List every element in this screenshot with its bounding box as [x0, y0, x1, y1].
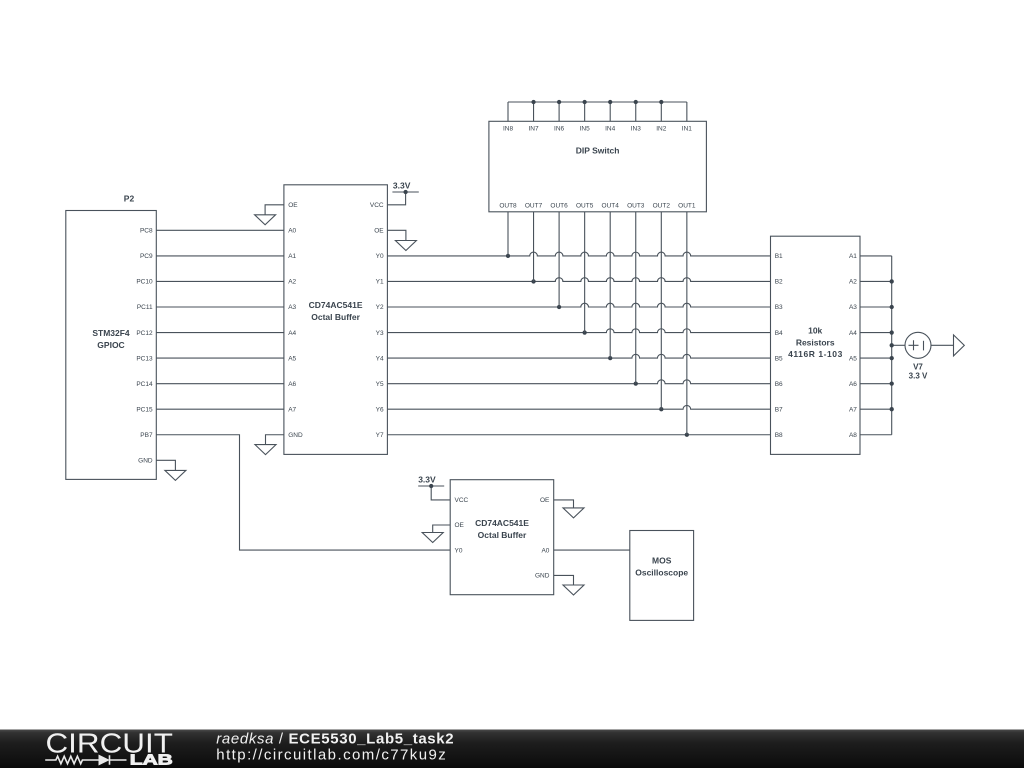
svg-text:Y0: Y0 — [376, 253, 384, 260]
junction dot OUT3 on Y5 — [634, 382, 638, 386]
junction dot at U2 VCC supply — [429, 484, 433, 488]
wire PC8 to A0 — [156, 229, 284, 231]
wire Y3 to B4 — [387, 329, 770, 333]
wire U2 VCC stub — [431, 486, 450, 500]
svg-text:Y3: Y3 — [376, 330, 384, 337]
voltage source V7 circle — [905, 332, 931, 358]
wire A8 stub — [860, 434, 892, 436]
svg-text:PC12: PC12 — [136, 330, 153, 337]
ground at U2 GND — [563, 585, 584, 595]
wire IN3 stub — [635, 102, 637, 121]
svg-text:VCC: VCC — [455, 497, 469, 504]
svg-text:OUT5: OUT5 — [576, 203, 594, 210]
svg-text:B1: B1 — [775, 253, 783, 260]
svg-text:Octal Buffer: Octal Buffer — [478, 530, 527, 540]
wire OUT4 to Y4 — [609, 212, 611, 358]
wire P2 GND stub — [156, 460, 175, 470]
wire U1 GND stub — [266, 435, 284, 445]
svg-text:A4: A4 — [288, 330, 296, 337]
component P2 STM32F4 GPIOC box — [66, 211, 157, 480]
ground at U1 GND — [255, 445, 276, 455]
svg-text:A8: A8 — [849, 432, 857, 439]
svg-text:raedksa / ECE5530_Lab5_task2: raedksa / ECE5530_Lab5_task2 — [216, 731, 453, 748]
svg-text:http://circuitlab.com/c77ku9z: http://circuitlab.com/c77ku9z — [216, 747, 445, 764]
svg-text:CD74AC541E: CD74AC541E — [309, 300, 363, 310]
component U1 CD74AC541E octal buffer box — [284, 185, 388, 455]
wire A4 stub — [860, 332, 892, 334]
component U2 CD74AC541E octal buffer box — [450, 480, 554, 595]
wire OUT7 to Y1 — [533, 212, 535, 282]
logo resistor zigzag — [45, 756, 99, 764]
svg-text:IN6: IN6 — [554, 126, 565, 133]
svg-text:A5: A5 — [288, 355, 296, 362]
wire U1 right OE stub — [387, 230, 406, 240]
V7 plus sign — [909, 340, 919, 350]
svg-text:STM32F4: STM32F4 — [92, 328, 130, 338]
svg-text:Y6: Y6 — [376, 406, 384, 413]
svg-text:Resistors: Resistors — [796, 337, 835, 347]
svg-text:CD74AC541E: CD74AC541E — [475, 518, 529, 528]
wire PC9 to A1 — [156, 255, 284, 257]
svg-text:A6: A6 — [288, 381, 296, 388]
junction dot IN6 — [557, 100, 561, 104]
svg-text:IN3: IN3 — [631, 126, 642, 133]
svg-text:OE: OE — [374, 228, 384, 235]
svg-text:MOS: MOS — [652, 555, 672, 565]
svg-text:A1: A1 — [288, 253, 296, 260]
junction dot OUT5 on Y3 — [583, 330, 587, 334]
wire U2 GND stub — [554, 575, 574, 585]
wire A2 stub — [860, 280, 892, 282]
wire U1 OE stub — [265, 205, 284, 215]
svg-text:GND: GND — [288, 432, 303, 439]
svg-text:OE: OE — [455, 522, 465, 529]
svg-text:V7: V7 — [913, 363, 923, 372]
svg-text:A2: A2 — [849, 279, 857, 286]
svg-text:OUT2: OUT2 — [653, 203, 671, 210]
junction dot V7 tap — [890, 343, 894, 347]
svg-text:3.3 V: 3.3 V — [909, 371, 928, 380]
wire OUT6 to Y2 — [558, 212, 560, 307]
svg-text:PC8: PC8 — [140, 228, 153, 235]
wire IN bus — [508, 101, 687, 103]
svg-text:B3: B3 — [775, 304, 783, 311]
ground at P2 GND — [165, 470, 186, 480]
footer black bar — [0, 730, 1024, 768]
svg-text:IN1: IN1 — [682, 126, 693, 133]
svg-text:A7: A7 — [849, 406, 857, 413]
junction dot A4 bus — [890, 330, 894, 334]
svg-text:PC15: PC15 — [136, 406, 153, 413]
wire A1 stub — [860, 255, 892, 257]
output flag — [954, 335, 965, 356]
wire Y0 to B1 — [387, 252, 770, 256]
wire PB7 to U2 Y0 — [156, 435, 450, 550]
wire IN4 stub — [609, 102, 611, 121]
junction dot OUT6 on Y2 — [557, 305, 561, 309]
svg-text:GPIOC: GPIOC — [97, 340, 124, 350]
wire IN5 stub — [584, 102, 586, 121]
svg-text:PC10: PC10 — [136, 279, 153, 286]
svg-text:GND: GND — [138, 458, 153, 465]
svg-text:A4: A4 — [849, 330, 857, 337]
wire Y1 to B2 — [387, 278, 770, 282]
svg-text:A3: A3 — [849, 304, 857, 311]
junction dot IN2 — [659, 100, 663, 104]
junction dot at U1 VCC supply — [403, 190, 407, 194]
V7 minus bar — [923, 341, 925, 351]
svg-text:3.3V: 3.3V — [393, 181, 411, 191]
junction dot OUT4 on Y4 — [608, 356, 612, 360]
component MOS oscilloscope box — [630, 531, 694, 621]
junction dot IN5 — [583, 100, 587, 104]
logo diode bar and wire — [109, 755, 127, 764]
supply 3.3V bar at U1 VCC — [392, 191, 418, 193]
svg-text:Y7: Y7 — [376, 432, 384, 439]
wire Y7 to B8 — [387, 434, 770, 436]
wire U2 A0 to oscilloscope — [554, 549, 630, 551]
component R1 10k resistor network box — [771, 236, 861, 454]
svg-text:B2: B2 — [775, 279, 783, 286]
svg-text:PB7: PB7 — [140, 432, 153, 439]
ground at U2 right OE — [563, 508, 584, 518]
junction dot A3 bus — [890, 305, 894, 309]
wire PC13 to A5 — [156, 357, 284, 359]
svg-text:B6: B6 — [775, 381, 783, 388]
ground at U2 OE — [422, 533, 443, 543]
svg-text:OUT8: OUT8 — [499, 203, 517, 210]
svg-text:A0: A0 — [541, 547, 549, 554]
wire IN8 stub — [507, 102, 509, 121]
svg-text:Y5: Y5 — [376, 381, 384, 388]
wire PC14 to A6 — [156, 383, 284, 385]
wire V7 to flag — [931, 344, 954, 346]
svg-text:P2: P2 — [124, 193, 135, 203]
svg-text:GND: GND — [535, 573, 550, 580]
svg-text:Octal Buffer: Octal Buffer — [311, 312, 360, 322]
wire A bus vertical — [891, 256, 893, 435]
wire OUT8 to Y0 — [507, 212, 509, 256]
svg-text:B8: B8 — [775, 432, 783, 439]
supply 3.3V bar at U2 VCC — [418, 485, 444, 487]
junction dot A6 bus — [890, 382, 894, 386]
junction dot A5 bus — [890, 356, 894, 360]
svg-text:OUT1: OUT1 — [678, 203, 696, 210]
svg-text:A0: A0 — [288, 228, 296, 235]
svg-text:PC9: PC9 — [140, 253, 153, 260]
wire A7 stub — [860, 408, 892, 410]
wire PC10 to A2 — [156, 280, 284, 282]
svg-text:IN7: IN7 — [528, 126, 539, 133]
junction dot IN7 — [531, 100, 535, 104]
svg-text:10k: 10k — [808, 326, 822, 336]
svg-text:OUT7: OUT7 — [525, 203, 543, 210]
wire U1 VCC stub — [387, 192, 405, 205]
svg-text:Y2: Y2 — [376, 304, 384, 311]
wire A3 stub — [860, 306, 892, 308]
wire OUT1 to Y7 — [686, 212, 688, 435]
wire PC15 to A7 — [156, 408, 284, 410]
svg-text:PC13: PC13 — [136, 355, 153, 362]
component SW1 DIP Switch box — [489, 121, 707, 212]
junction dot IN3 — [634, 100, 638, 104]
svg-text:OE: OE — [540, 497, 550, 504]
svg-text:3.3V: 3.3V — [418, 475, 436, 485]
svg-text:A1: A1 — [849, 253, 857, 260]
svg-text:PC14: PC14 — [136, 381, 153, 388]
svg-text:A7: A7 — [288, 406, 296, 413]
svg-text:IN5: IN5 — [580, 126, 591, 133]
svg-text:Y0: Y0 — [455, 547, 463, 554]
svg-text:B7: B7 — [775, 406, 783, 413]
svg-text:B4: B4 — [775, 330, 783, 337]
wire U2 right OE stub — [554, 500, 574, 508]
svg-text:IN2: IN2 — [656, 126, 667, 133]
svg-text:A2: A2 — [288, 279, 296, 286]
svg-text:LAB: LAB — [130, 752, 173, 768]
ground at U1 right OE — [395, 241, 416, 251]
svg-text:OUT3: OUT3 — [627, 203, 645, 210]
junction dot OUT7 on Y1 — [531, 279, 535, 283]
junction dot OUT1 on Y7 — [685, 433, 689, 437]
wire PC12 to A4 — [156, 332, 284, 334]
wire Y4 to B5 — [387, 354, 770, 358]
wire A6 stub — [860, 383, 892, 385]
wire Y5 to B6 — [387, 380, 770, 384]
svg-text:PC11: PC11 — [137, 304, 153, 311]
svg-text:A6: A6 — [849, 381, 857, 388]
svg-text:B5: B5 — [775, 355, 783, 362]
junction dot OUT2 on Y6 — [659, 407, 663, 411]
wire IN1 stub — [686, 102, 688, 121]
svg-text:OUT6: OUT6 — [550, 203, 568, 210]
svg-text:A3: A3 — [288, 304, 296, 311]
svg-text:DIP Switch: DIP Switch — [576, 146, 620, 156]
wire IN6 stub — [558, 102, 560, 121]
junction dot A2 bus — [890, 279, 894, 283]
wire U2 OE stub — [433, 525, 451, 533]
svg-text:IN4: IN4 — [605, 126, 616, 133]
ground at U1 OE — [255, 215, 276, 225]
junction dot OUT8 on Y0 — [506, 254, 510, 258]
wire Y6 to B7 — [387, 405, 770, 409]
junction dot IN4 — [608, 100, 612, 104]
svg-text:4116R 1-103: 4116R 1-103 — [788, 349, 842, 359]
wire bus to V7 — [892, 344, 905, 346]
svg-text:OE: OE — [288, 202, 298, 209]
wire OUT5 to Y3 — [584, 212, 586, 333]
wire A5 stub — [860, 357, 892, 359]
svg-text:VCC: VCC — [370, 202, 384, 209]
svg-text:OUT4: OUT4 — [602, 203, 620, 210]
wire OUT3 to Y5 — [635, 212, 637, 384]
svg-text:IN8: IN8 — [503, 126, 514, 133]
logo diode — [99, 755, 109, 764]
svg-text:Oscilloscope: Oscilloscope — [635, 568, 688, 578]
svg-text:A5: A5 — [849, 355, 857, 362]
wire OUT2 to Y6 — [660, 212, 662, 409]
svg-text:Y1: Y1 — [376, 279, 384, 286]
svg-text:Y4: Y4 — [376, 355, 384, 362]
wire IN2 stub — [660, 102, 662, 121]
junction dot A7 bus — [890, 407, 894, 411]
wire Y2 to B3 — [387, 303, 770, 307]
wire PC11 to A3 — [156, 306, 284, 308]
wire IN7 stub — [533, 102, 535, 121]
